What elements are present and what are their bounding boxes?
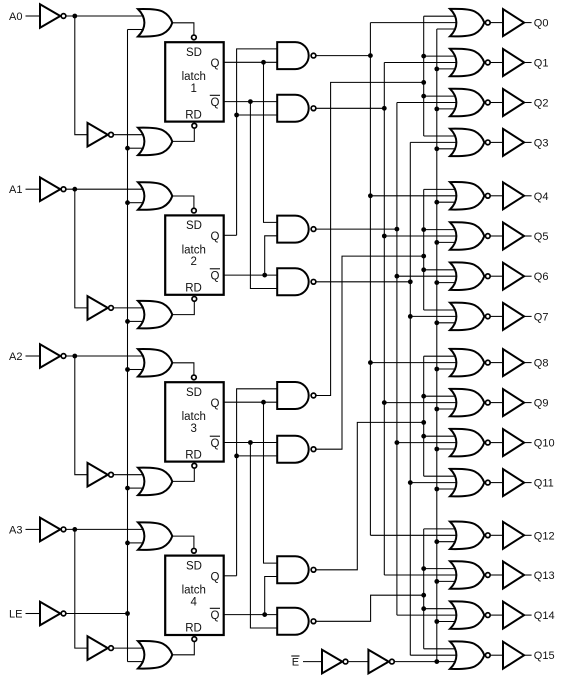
junction LE bus at SD OR latch 4 (125, 541, 130, 546)
OR gate RD latch 4 (138, 641, 172, 669)
svg-text:Q: Q (211, 231, 220, 243)
svg-text:Q3: Q3 (534, 137, 549, 149)
svg-text:A1: A1 (9, 184, 22, 196)
wire nor Q5 to buffer (490, 235, 503, 237)
junction LE bus at RD OR latch 1 (125, 146, 130, 151)
wire E bus to Q8 bottom input (437, 368, 457, 370)
OR gate RD latch 1 (138, 128, 172, 156)
junction bus N7 at Q9 top (421, 394, 426, 399)
wire NAND N5 bus vertical (423, 16, 425, 136)
wire bus N5 to Q1 top input (424, 55, 457, 57)
junction latch 3 Qbar branch (248, 440, 253, 445)
wire LE bus tap to SD OR latch 4 (128, 542, 144, 544)
wire buffer Q8 to label (524, 362, 532, 364)
wire bus N2 to Q5 middle input (384, 235, 463, 237)
wire RD OR output to latch 4 RD (172, 642, 194, 655)
svg-text:RD: RD (185, 109, 202, 121)
svg-text:Q4: Q4 (534, 191, 549, 203)
wire NAND N8 output riser (316, 595, 424, 621)
wire E bus to Q2 bottom input (437, 108, 457, 110)
wire latch 3 Q to NAND N5 (224, 401, 278, 403)
wire between E inverters (349, 661, 369, 663)
inverter E first inverter (322, 650, 348, 674)
wire latch 2 Q bus tap to NAND N2 (237, 114, 278, 116)
wire bus N1 to Q12 middle input (370, 534, 463, 536)
junction E bus at Q6 bottom (434, 280, 439, 285)
wire NAND N6 bus vertical (423, 189, 425, 310)
wire bus N4 to Q15 middle input (410, 654, 463, 656)
junction latch 2 Qbar branch (262, 273, 267, 278)
junction latch 4 Qbar branch (262, 612, 267, 617)
junction bus N2 at Q9 middle (382, 400, 387, 405)
nor gate Q7 (450, 303, 490, 331)
wire latch 1 Qbar bus down to NAND N4 (250, 102, 277, 289)
junction NAND N6 riser on bus (421, 254, 426, 259)
svg-text:latch: latch (182, 411, 206, 423)
junction NAND N7 riser on bus (421, 420, 426, 425)
wire latch 4 Qbar to NAND N8 (224, 614, 278, 616)
wire nor Q10 to buffer (490, 442, 503, 444)
inverter A2 input inverter (40, 344, 66, 368)
wire buffer Q0 to label (524, 22, 532, 24)
wire A3 buffered to RD OR gate (114, 647, 143, 649)
wire SD OR output to latch 2 SD (172, 196, 194, 208)
wire E bus to Q11 bottom input (437, 488, 457, 490)
svg-text:Q9: Q9 (534, 398, 549, 410)
wire buffer Q4 to label (524, 195, 532, 197)
wire buffer Q15 to label (524, 654, 532, 656)
wire E bus to Q3 bottom input (437, 148, 457, 150)
wire NAND N5 output riser (316, 82, 424, 395)
nor gate Q5 (450, 222, 490, 250)
wire nor Q2 to buffer (490, 102, 503, 104)
wire nor Q1 to buffer (490, 62, 503, 64)
wire latch 3 Q bus down to NAND N7 (264, 402, 278, 563)
latch 4 box (165, 548, 224, 641)
wire nor Q15 to buffer (490, 654, 503, 656)
wire latch 4 Q bus up to NAND N5 (237, 389, 278, 576)
latch 3 Qbar overline (210, 435, 220, 437)
wire buffer Q14 to label (524, 614, 532, 616)
wire bus N5 to Q3 top input (424, 135, 457, 137)
latch 2 Qbar overline (210, 268, 220, 270)
latch 3 box (165, 375, 224, 468)
svg-text:SD: SD (186, 220, 202, 232)
nor gate Q1 (450, 49, 490, 77)
inverter A2 buffer inverter (88, 463, 114, 487)
inverter E second inverter (368, 650, 394, 674)
wire latch 2 Q to bus (224, 234, 237, 236)
wire buffer Q7 to label (524, 315, 532, 317)
junction bus N2 at Q5 middle (382, 234, 387, 239)
wire E input stub (303, 661, 322, 663)
wire bus N2 to Q9 middle input (384, 402, 463, 404)
wire SD OR output to latch 4 SD (172, 536, 194, 548)
wire bus N3 to Q14 middle input (397, 614, 463, 616)
svg-text:Q2: Q2 (534, 98, 549, 110)
junction LE bus at RD OR latch 2 (125, 319, 130, 324)
wire A2 buffered to RD OR gate (114, 474, 143, 476)
wire bus N1 to Q8 middle input (370, 362, 463, 364)
junction bus N5 at Q2 top (421, 94, 426, 99)
junction bus N5 at Q1 top (421, 54, 426, 59)
node A0-inverted junction (72, 14, 77, 19)
inverter A3 input inverter (40, 518, 66, 542)
nor gate Q14 (450, 601, 490, 629)
wire LE bus bottom corner to RD OR latch 4 (128, 661, 144, 663)
wire nor Q0 to buffer (490, 22, 503, 24)
junction bus N4 at Q7 middle (408, 314, 413, 319)
wire latch 1 Q bus down to NAND N3 (264, 62, 278, 222)
svg-text:Q10: Q10 (534, 438, 555, 450)
wire E bus to Q7 bottom input (437, 322, 457, 324)
junction E bus at Q10 bottom (434, 447, 439, 452)
buffer Q12 (503, 522, 524, 549)
wire latch 1 Q to NAND N1 (224, 61, 278, 63)
nor gate Q10 (450, 429, 490, 457)
buffer Q0 (503, 9, 524, 36)
junction E bus at Q11 bottom (434, 487, 439, 492)
wire buffer Q10 to label (524, 442, 532, 444)
wire A0 buffered to RD OR gate (114, 134, 143, 136)
wire A0 node down to buffer inverter (75, 16, 88, 135)
wire E bus to Q12 bottom input (437, 541, 457, 543)
wire E bus to Q14 bottom input (437, 621, 457, 623)
wire A1 buffered to RD OR gate (114, 307, 143, 309)
svg-text:latch: latch (182, 244, 206, 256)
buffer Q7 (503, 303, 524, 330)
OR gate SD latch 1 (138, 9, 172, 37)
wire bus N7 to Q10 top input (424, 435, 457, 437)
buffer Q2 (503, 89, 524, 116)
wire E bus to Q6 bottom input (437, 282, 457, 284)
wire NAND N1 output to bus (316, 55, 370, 57)
wire buffer Q1 to label (524, 62, 532, 64)
wire nor Q9 to buffer (490, 402, 503, 404)
wire bus N6 to Q5 top input (424, 229, 457, 231)
wire nor Q8 to buffer (490, 362, 503, 364)
nand N7 (277, 556, 316, 583)
svg-text:Q: Q (211, 571, 220, 583)
wire nor Q12 to buffer (490, 534, 503, 536)
junction NAND N2 output on bus (382, 106, 387, 111)
svg-text:Q: Q (211, 97, 220, 109)
wire bus N7 to Q8 top input (424, 355, 457, 357)
junction LE bus at SD OR latch 2 (125, 200, 130, 205)
junction latch 4 Q bus at NAND N6 (234, 454, 239, 459)
wire NAND N3 output to bus (316, 228, 397, 230)
junction bus N8 at Q13 top (421, 566, 426, 571)
junction bus N3 at Q6 middle (395, 274, 400, 279)
nand N1 (277, 42, 316, 69)
wire NAND N7 output riser (316, 422, 424, 569)
wire nor Q4 to buffer (490, 195, 503, 197)
svg-text:Q: Q (211, 398, 220, 410)
latch 4 Qbar overline (210, 607, 220, 609)
wire NAND N4 output to bus (316, 281, 410, 283)
wire LE bus tap to RD OR latch 1 (128, 147, 144, 149)
wire latch 1 Qbar to NAND N2 (224, 101, 278, 103)
junction latch 3 Q branch (261, 400, 266, 405)
wire bus N6 to Q4 top input (424, 188, 457, 190)
junction NAND N1 output on bus (368, 53, 373, 58)
svg-text:3: 3 (191, 423, 197, 435)
svg-text:SD: SD (186, 387, 202, 399)
junction NAND N5 riser on bus (421, 80, 426, 85)
nand N2 (277, 95, 316, 122)
wire bus N3 to Q10 middle input (397, 442, 463, 444)
svg-text:Q0: Q0 (534, 18, 549, 30)
junction bus N1 at Q4 middle (368, 193, 373, 198)
junction NAND N4 output on bus (408, 279, 413, 284)
wire A3-inverted to OR gate (66, 528, 143, 530)
wire A2 node down to buffer inverter (75, 356, 88, 475)
wire bus N8 to Q13 top input (424, 568, 457, 570)
wire LE bus tap to RD OR latch 2 (128, 320, 144, 322)
nor gate Q3 (450, 129, 490, 157)
junction LE bus at RD OR latch 3 (125, 486, 130, 491)
wire E bus to Q9 bottom input (437, 408, 457, 410)
wire buffer Q9 to label (524, 402, 532, 404)
wire LE bus tap to SD OR latch 3 (128, 369, 144, 371)
svg-text:4: 4 (191, 596, 198, 608)
svg-text:1: 1 (191, 83, 197, 95)
latch 2 box (165, 208, 224, 301)
wire latch 3 Qbar bus down to NAND N8 (250, 443, 277, 629)
wire NAND N3 bus vertical (396, 103, 398, 616)
svg-text:Q6: Q6 (534, 271, 549, 283)
buffer Q3 (503, 129, 524, 156)
wire latch 3 Qbar to NAND N6 (224, 442, 278, 444)
wire E bus to Q10 bottom input (437, 448, 457, 450)
svg-text:Q: Q (211, 271, 220, 283)
latch 1 Qbar overline (210, 94, 220, 96)
junction bus N4 at Q11 middle (408, 480, 413, 485)
junction E bus at Q2 bottom (434, 107, 439, 112)
nor gate Q0 (450, 9, 490, 37)
nand N8 (277, 608, 316, 635)
junction bus N8 at Q14 top (421, 606, 426, 611)
svg-text:2: 2 (191, 256, 197, 268)
svg-text:A2: A2 (9, 351, 22, 363)
wire LE bus tap to RD OR latch 3 (128, 487, 144, 489)
svg-text:LE: LE (9, 609, 22, 621)
buffer Q1 (503, 49, 524, 76)
E label overline (291, 655, 299, 657)
svg-text:Q15: Q15 (534, 650, 555, 662)
wire LE bus vertical (127, 30, 129, 662)
wire nor Q7 to buffer (490, 315, 503, 317)
wire buffer Q5 to label (524, 235, 532, 237)
svg-text:Q: Q (211, 438, 220, 450)
wire latch 2 Q bus up to NAND N1 (237, 49, 278, 235)
wire latch 2 Qbar to NAND N4 (224, 274, 278, 276)
nor gate Q2 (450, 89, 490, 117)
wire nor Q14 to buffer (490, 614, 503, 616)
svg-text:Q5: Q5 (534, 231, 549, 243)
svg-text:Q13: Q13 (534, 570, 555, 582)
wire bus N4 to Q7 middle input (410, 315, 463, 317)
wire NAND N6 output riser (316, 256, 424, 449)
wire LE input stub (26, 613, 41, 615)
svg-text:RD: RD (185, 449, 202, 461)
wire NAND N4 bus vertical (409, 142, 411, 655)
latch 1 box (165, 35, 224, 128)
svg-text:RD: RD (185, 283, 202, 295)
buffer Q11 (503, 469, 524, 496)
buffer Q15 (503, 642, 524, 669)
junction NAND N3 output on bus (395, 227, 400, 232)
buffer Q14 (503, 602, 524, 629)
buffer Q4 (503, 182, 524, 209)
wire RD OR output to latch 1 RD (172, 128, 194, 141)
wire NAND N7 bus vertical (423, 356, 425, 476)
junction E bus at Q12 bottom (434, 539, 439, 544)
wire buffer Q11 to label (524, 482, 532, 484)
wire A2-inverted to OR gate (66, 355, 143, 357)
wire bus N4 to Q11 middle input (410, 482, 463, 484)
buffer Q8 (503, 349, 524, 376)
buffer Q5 (503, 223, 524, 250)
wire bus N3 to Q2 middle input (397, 102, 463, 104)
wire NAND N2 bus vertical (383, 63, 385, 576)
wire E bus to Q1 bottom input (437, 68, 457, 70)
inverter LE input inverter (40, 602, 66, 626)
inverter A1 input inverter (40, 177, 66, 201)
wire bus N6 to Q7 top input (424, 309, 457, 311)
junction LE bus at SD OR latch 3 (125, 367, 130, 372)
junction E bus at Q9 bottom (434, 407, 439, 412)
junction E bus at Q15 bottom (434, 659, 439, 664)
wire bus N4 to Q3 middle input (410, 141, 463, 143)
buffer Q13 (503, 562, 524, 589)
inverter A0 buffer inverter (88, 123, 114, 147)
nor gate Q4 (450, 182, 490, 210)
wire SD OR output to latch 3 SD (172, 363, 194, 375)
svg-text:Q1: Q1 (534, 58, 549, 70)
wire NAND N1 bus vertical (369, 23, 371, 536)
wire bus N8 to Q14 top input (424, 608, 457, 610)
nand N3 (277, 216, 316, 243)
wire nor Q13 to buffer (490, 574, 503, 576)
wire latch 4 Qbar bus up to NAND N7 (265, 577, 278, 615)
svg-text:latch: latch (182, 585, 206, 597)
junction E bus at Q7 bottom (434, 320, 439, 325)
wire bus N6 to Q6 top input (424, 269, 457, 271)
wire bus N8 to Q12 top input (424, 528, 457, 530)
wire bus N8 to Q15 top input (424, 648, 457, 650)
svg-text:Q: Q (211, 610, 220, 622)
wire A1-inverted to OR gate (66, 188, 143, 190)
wire E bus to Q4 bottom input (437, 201, 457, 203)
junction bus N3 at Q10 middle (395, 440, 400, 445)
buffer Q6 (503, 263, 524, 290)
wire bus N1 to Q4 middle input (370, 195, 463, 197)
svg-text:SD: SD (186, 560, 202, 572)
inverter A3 buffer inverter (88, 636, 114, 660)
wire A2 input stub (26, 355, 41, 357)
nor gate Q12 (450, 522, 490, 550)
svg-text:RD: RD (185, 623, 202, 635)
nand N6 (277, 436, 316, 463)
inverter A1 buffer inverter (88, 296, 114, 320)
svg-text:Q8: Q8 (534, 358, 549, 370)
wire A0 input stub (26, 15, 41, 17)
nor gate Q11 (450, 469, 490, 497)
node A1-inverted junction (72, 187, 77, 192)
wire E inverters to Q15 bottom input (395, 661, 457, 663)
wire A1 node down to buffer inverter (75, 189, 88, 308)
wire nor Q11 to buffer (490, 482, 503, 484)
junction latch 1 Qbar branch (248, 99, 253, 104)
wire bus N7 to Q9 top input (424, 395, 457, 397)
wire bus N7 to Q11 top input (424, 475, 457, 477)
junction E bus at Q4 bottom (434, 200, 439, 205)
svg-text:Q12: Q12 (534, 530, 555, 542)
OR gate SD latch 3 (138, 349, 172, 377)
wire latch 2 Qbar bus up to NAND N3 (265, 236, 278, 275)
wire buffer Q12 to label (524, 534, 532, 536)
buffer Q9 (503, 389, 524, 416)
junction bus N1 at Q8 middle (368, 360, 373, 365)
junction latch 2 Q bus at NAND N2 (234, 113, 239, 118)
junction E bus at Q1 bottom (434, 67, 439, 72)
svg-text:Q14: Q14 (534, 610, 555, 622)
wire bus N5 to Q2 top input (424, 95, 457, 97)
wire E bus vertical (436, 29, 438, 662)
wire NAND N8 bus vertical (423, 529, 425, 649)
wire A0-inverted to OR gate (66, 15, 143, 17)
svg-text:E: E (292, 657, 299, 669)
OR gate SD latch 2 (138, 182, 172, 210)
nor gate Q15 (450, 641, 490, 669)
OR gate SD latch 4 (138, 522, 172, 550)
junction E bus at Q5 bottom (434, 240, 439, 245)
wire buffer Q6 to label (524, 275, 532, 277)
wire A1 input stub (26, 188, 41, 190)
svg-text:Q7: Q7 (534, 311, 549, 323)
inverter A0 input inverter (40, 4, 66, 28)
wire buffer Q2 to label (524, 102, 532, 104)
junction NAND N8 riser on bus (421, 593, 426, 598)
wire buffer Q13 to label (524, 574, 532, 576)
junction E bus at Q13 bottom (434, 579, 439, 584)
junction E bus at Q8 bottom (434, 367, 439, 372)
svg-text:A3: A3 (9, 524, 22, 536)
wire bus N5 to Q0 top input (424, 15, 457, 17)
svg-text:Q: Q (211, 58, 220, 70)
nand N4 (277, 268, 316, 295)
wire bus N1 to Q0 middle input (370, 22, 463, 24)
svg-text:A0: A0 (9, 11, 22, 23)
wire latch 4 Q bus tap to NAND N6 (237, 455, 278, 457)
wire E bus to Q0 bottom input (437, 28, 457, 30)
junction bus N7 at Q10 top (421, 434, 426, 439)
svg-text:Q11: Q11 (534, 478, 554, 490)
wire LE inverted to LE bus (66, 613, 127, 615)
junction bus N6 at Q6 top (421, 267, 426, 272)
wire E bus to Q5 bottom input (437, 241, 457, 243)
svg-text:SD: SD (186, 47, 202, 59)
wire NAND N2 output to bus (316, 107, 384, 109)
nor gate Q8 (450, 349, 490, 377)
wire nor Q6 to buffer (490, 275, 503, 277)
junction bus N6 at Q5 top (421, 227, 426, 232)
wire bus N3 to Q6 middle input (397, 275, 463, 277)
nor gate Q13 (450, 561, 490, 589)
wire bus N2 to Q1 middle input (384, 62, 463, 64)
nor gate Q9 (450, 389, 490, 417)
